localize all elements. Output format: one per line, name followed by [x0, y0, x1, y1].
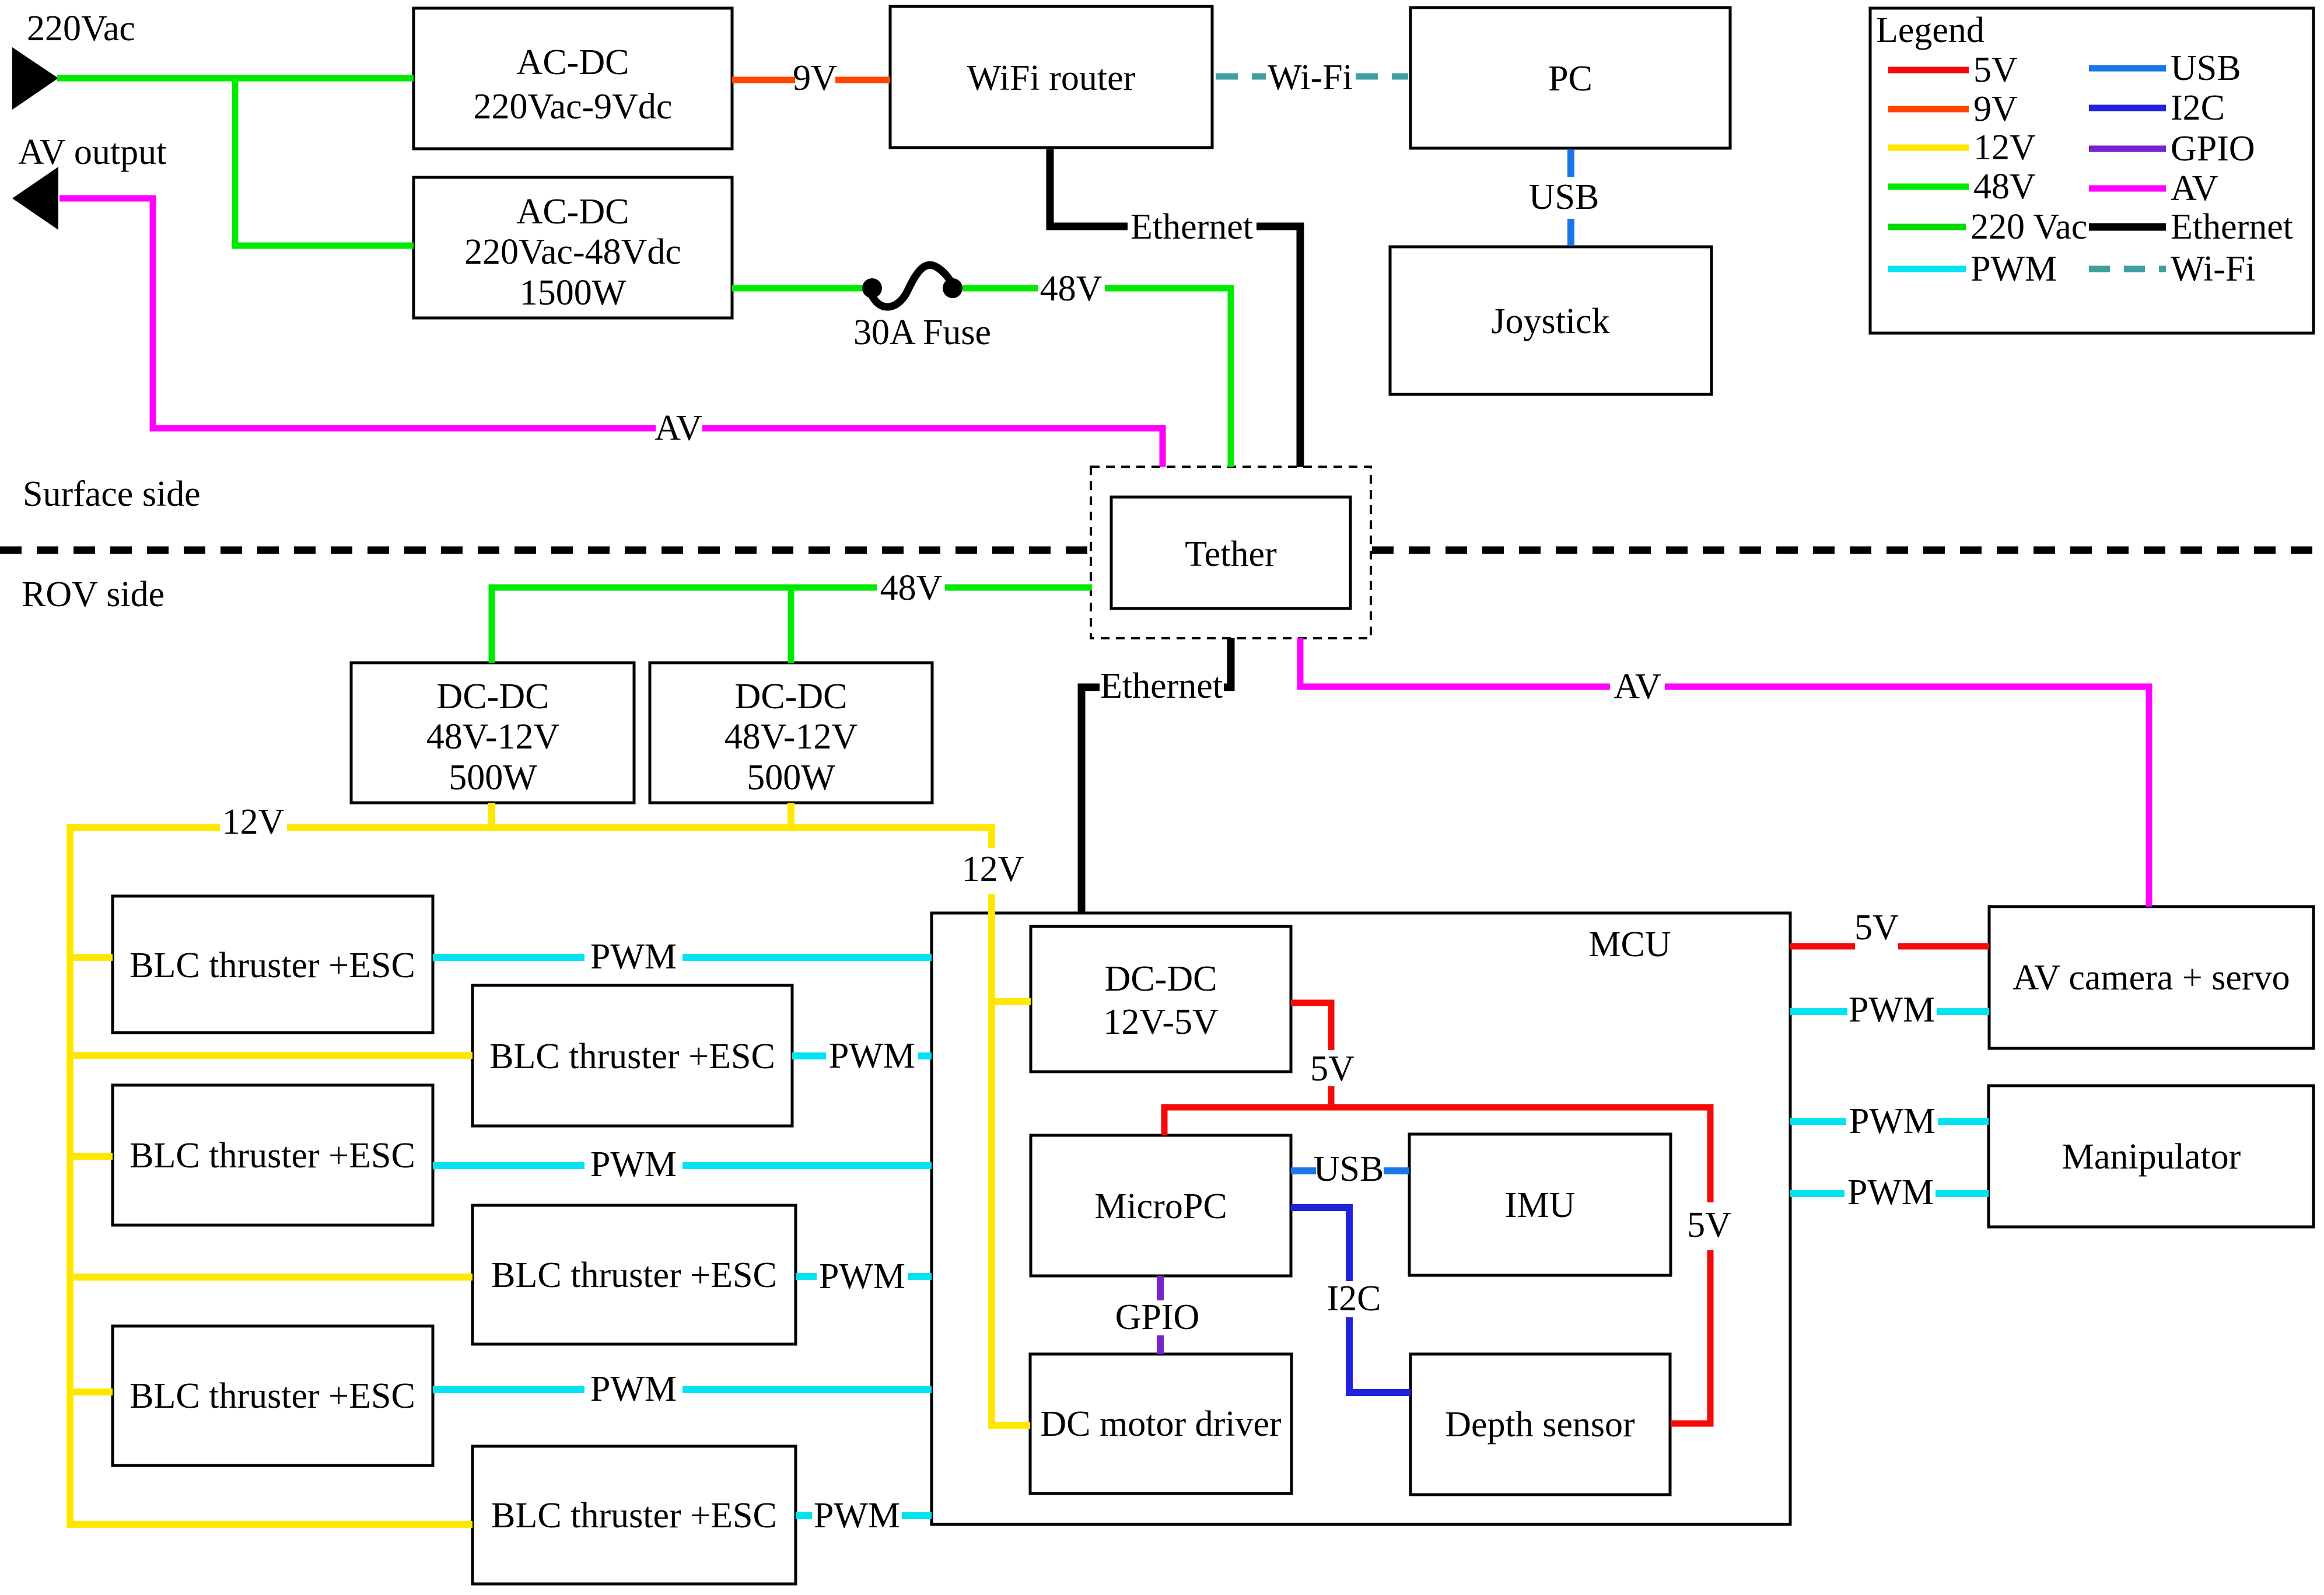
wire PWM cyan BLC6 left	[796, 1512, 812, 1519]
wire AV magenta to tether	[702, 428, 1163, 467]
node legend 48V	[1888, 167, 2036, 207]
node legend 220 Vac	[1888, 207, 2087, 247]
box PC	[1410, 8, 1730, 148]
svg-text:12V: 12V	[222, 802, 285, 842]
box BLC thruster +ESC 6	[473, 1446, 796, 1584]
svg-text:PWM: PWM	[1971, 249, 2057, 289]
svg-text:PWM: PWM	[814, 1496, 900, 1535]
svg-text:48V: 48V	[1040, 269, 1102, 309]
box AV camera + servo	[1989, 907, 2313, 1048]
wire Wi-Fi dashed right	[1356, 74, 1408, 80]
wire AV magenta output	[60, 198, 656, 428]
svg-text:Ethernet: Ethernet	[2171, 207, 2293, 247]
wire Ethernet WiFi router down	[1050, 149, 1128, 226]
box Tether (dashed enclosure)	[1091, 467, 1371, 638]
wire 48V green branch to DC-DC right	[788, 587, 794, 663]
box BLC thruster +ESC 1	[113, 896, 433, 1033]
box BLC thruster +ESC 3	[113, 1085, 433, 1225]
wire PWM cyan BLC5 right	[682, 1386, 932, 1393]
svg-text:AV: AV	[1613, 667, 1661, 706]
wire PWM cyan BLC1 right	[682, 954, 932, 961]
wire PWM cyan BLC3 left	[433, 1162, 584, 1169]
wire 12V yellow left bus	[70, 824, 473, 1524]
svg-text:AV: AV	[2171, 169, 2218, 208]
svg-text:ROV side: ROV side	[22, 575, 164, 614]
box BLC thruster +ESC 2	[473, 985, 792, 1126]
svg-text:PWM: PWM	[1849, 990, 1935, 1030]
box AC-DC 220Vac-9Vdc	[414, 8, 732, 149]
box Depth sensor	[1410, 1354, 1670, 1495]
svg-text:DC-DC: DC-DC	[1105, 959, 1217, 999]
box DC-DC 48V-12V 500W left	[351, 663, 634, 803]
svg-text:BLC thruster +ESC: BLC thruster +ESC	[491, 1496, 777, 1535]
svg-text:BLC thruster +ESC: BLC thruster +ESC	[129, 1376, 415, 1416]
wire 5V red horizontal bus	[1164, 1107, 1710, 1202]
svg-text:500W: 500W	[747, 758, 835, 797]
svg-text:5V: 5V	[1973, 50, 2018, 90]
wire PWM cyan manipulator 2 right	[1936, 1190, 1989, 1197]
svg-text:GPIO: GPIO	[1115, 1297, 1200, 1337]
wire 12V yellow stub BLC5	[70, 1388, 113, 1395]
wire PWM cyan camera right	[1937, 1008, 1989, 1015]
svg-text:Wi-Fi: Wi-Fi	[1268, 58, 1353, 97]
wire PWM cyan manipulator 2 left	[1790, 1190, 1845, 1197]
svg-text:220 Vac: 220 Vac	[1971, 207, 2087, 247]
svg-text:AV: AV	[654, 408, 702, 448]
svg-text:48V: 48V	[1973, 167, 2036, 207]
svg-text:220Vac-9Vdc: 220Vac-9Vdc	[474, 87, 673, 127]
node legend AV	[2089, 169, 2218, 208]
svg-text:GPIO: GPIO	[2171, 129, 2255, 169]
svg-text:Ethernet: Ethernet	[1130, 207, 1253, 247]
svg-text:USB: USB	[1314, 1149, 1384, 1189]
wire Ethernet to MCU	[1081, 687, 1100, 913]
box BLC thruster +ESC 5	[113, 1326, 433, 1465]
wire USB PC upper segment	[1567, 149, 1574, 177]
wire 48V green fuse to label	[963, 285, 1038, 292]
wire PWM cyan BLC1 left	[433, 954, 584, 961]
node legend 9V	[1888, 89, 2018, 129]
svg-text:BLC thruster +ESC: BLC thruster +ESC	[491, 1255, 777, 1295]
wire surface/ROV dashed divider left	[0, 547, 1090, 554]
box WiFi router	[890, 6, 1212, 148]
wire 9V orange right segment	[835, 77, 890, 83]
svg-text:5V: 5V	[1854, 908, 1899, 947]
svg-text:500W: 500W	[449, 758, 537, 797]
svg-text:I2C: I2C	[1327, 1279, 1381, 1318]
wire 5V red MCU to camera left	[1790, 943, 1855, 950]
svg-text:AC-DC: AC-DC	[517, 43, 629, 82]
svg-text:BLC thruster +ESC: BLC thruster +ESC	[129, 946, 415, 985]
wire 48V green ROV to tether	[945, 585, 1092, 591]
wire 12V yellow bus left segment	[70, 824, 220, 831]
wire Ethernet label to tether	[1256, 226, 1300, 467]
svg-text:5V: 5V	[1310, 1049, 1354, 1089]
wire PWM cyan camera left	[1790, 1008, 1847, 1015]
wire PWM cyan manipulator 1 left	[1790, 1118, 1846, 1125]
svg-text:USB: USB	[1529, 177, 1599, 217]
node legend Ethernet	[2089, 207, 2293, 247]
wire 48V green ROV to DC-DC left	[492, 587, 877, 663]
wire Wi-Fi dashed left	[1216, 74, 1266, 80]
node legend I2C	[2089, 88, 2225, 128]
wire 5V red to Depth sensor	[1671, 1250, 1710, 1423]
svg-text:9V: 9V	[793, 58, 837, 98]
wire AV magenta to camera	[1665, 687, 2149, 907]
wire 12V yellow stub to DC-DC 12V-5V	[992, 998, 1031, 1005]
svg-text:48V: 48V	[880, 568, 943, 608]
wire AV magenta tether down	[1300, 638, 1610, 687]
svg-text:AC-DC: AC-DC	[517, 192, 629, 232]
box IMU	[1409, 1134, 1671, 1275]
svg-text:USB: USB	[2171, 48, 2241, 88]
svg-text:PWM: PWM	[1849, 1101, 1936, 1141]
wire USB Joystick lower segment	[1567, 219, 1574, 246]
node AV output arrow	[12, 132, 166, 230]
svg-text:Tether: Tether	[1185, 534, 1277, 574]
wire USB IMU right	[1384, 1167, 1409, 1174]
node legend Wi-Fi	[2089, 249, 2256, 289]
svg-text:Wi-Fi: Wi-Fi	[2171, 249, 2256, 289]
box Joystick	[1390, 247, 1711, 394]
svg-text:I2C: I2C	[2171, 88, 2225, 128]
wire 12V yellow stub BLC4	[70, 1274, 473, 1281]
svg-text:BLC thruster +ESC: BLC thruster +ESC	[489, 1037, 775, 1076]
svg-text:AV camera + servo: AV camera + servo	[2013, 958, 2290, 998]
svg-text:PWM: PWM	[590, 937, 677, 977]
svg-text:48V-12V: 48V-12V	[426, 717, 560, 757]
box MCU	[932, 913, 1790, 1524]
wire USB MicroPC left	[1291, 1167, 1316, 1174]
svg-text:Joystick: Joystick	[1491, 302, 1609, 341]
svg-text:AV output: AV output	[18, 132, 166, 172]
wire PWM cyan BLC2 right	[918, 1052, 932, 1059]
box DC motor driver	[1030, 1354, 1291, 1493]
box MicroPC	[1031, 1135, 1291, 1276]
svg-text:30A Fuse: 30A Fuse	[853, 313, 991, 352]
node legend PWM	[1888, 249, 2057, 289]
box DC-DC 12V-5V	[1031, 926, 1291, 1072]
node 220Vac input arrow	[12, 9, 135, 110]
wire PWM cyan BLC4 right	[908, 1273, 932, 1280]
svg-text:220Vac: 220Vac	[27, 9, 135, 48]
svg-text:PWM: PWM	[590, 1369, 677, 1409]
wire 5V red MCU to camera right	[1898, 943, 1989, 950]
wire PWM cyan BLC5 left	[433, 1386, 584, 1393]
svg-text:Legend: Legend	[1876, 11, 1985, 50]
svg-text:1500W: 1500W	[520, 273, 626, 313]
wire 12V yellow stub BLC3	[70, 1153, 113, 1160]
wire PWM cyan BLC2 left	[792, 1052, 826, 1059]
svg-text:DC motor driver: DC motor driver	[1040, 1404, 1282, 1444]
svg-text:BLC thruster +ESC: BLC thruster +ESC	[129, 1136, 415, 1176]
fuse 30A Fuse	[853, 265, 991, 352]
wire PWM cyan BLC3 right	[682, 1162, 932, 1169]
wire 5V red from DC-DC 12V-5V	[1291, 1003, 1331, 1050]
svg-text:PWM: PWM	[1847, 1173, 1934, 1212]
wire PWM cyan BLC6 right	[902, 1512, 932, 1519]
svg-text:MCU: MCU	[1588, 925, 1671, 964]
svg-text:PWM: PWM	[829, 1036, 915, 1076]
wire GPIO MicroPC down	[1157, 1276, 1164, 1300]
wire I2C to Depth sensor	[1349, 1317, 1410, 1393]
box Manipulator	[1989, 1086, 2313, 1227]
svg-text:12V: 12V	[962, 849, 1024, 889]
wire 9V orange left segment	[732, 77, 795, 83]
wire GPIO to DC motor driver	[1157, 1335, 1164, 1354]
svg-text:DC-DC: DC-DC	[735, 677, 848, 716]
svg-text:220Vac-48Vdc: 220Vac-48Vdc	[464, 232, 681, 272]
node legend 12V	[1888, 128, 2036, 167]
wire 12V yellow stub BLC1	[70, 954, 113, 961]
wire 12V yellow bus right segment	[287, 827, 992, 848]
wire 220Vac green branch down	[235, 78, 414, 246]
svg-text:DC-DC: DC-DC	[437, 677, 549, 716]
svg-text:9V: 9V	[1973, 89, 2018, 129]
node legend GPIO	[2089, 129, 2255, 169]
node legend 5V	[1888, 50, 2018, 90]
svg-text:Manipulator: Manipulator	[2062, 1137, 2241, 1177]
box AC-DC 220Vac-48Vdc 1500W	[414, 177, 732, 318]
svg-text:MicroPC: MicroPC	[1094, 1187, 1227, 1226]
node legend USB	[2089, 48, 2241, 88]
wire 12V yellow DC-DC left down	[488, 803, 495, 827]
box DC-DC 48V-12V 500W right	[650, 663, 932, 803]
svg-text:12V: 12V	[1973, 128, 2036, 167]
box Legend	[1870, 8, 2313, 333]
wire PWM cyan manipulator 1 right	[1938, 1118, 1989, 1125]
svg-text:PWM: PWM	[590, 1145, 677, 1184]
wire 220Vac green input to AC-DC1	[57, 75, 414, 82]
wire surface/ROV dashed divider right	[1372, 547, 2324, 554]
wire 12V yellow DC-DC right down	[787, 803, 794, 827]
wire 12V yellow stub BLC2	[70, 1052, 473, 1059]
svg-text:12V-5V: 12V-5V	[1103, 1002, 1219, 1042]
wire Ethernet tether down	[1224, 638, 1231, 687]
wire PWM cyan BLC4 left	[796, 1273, 817, 1280]
box Tether	[1111, 497, 1350, 608]
svg-text:5V: 5V	[1687, 1205, 1731, 1245]
svg-text:Depth sensor: Depth sensor	[1445, 1405, 1635, 1444]
wire I2C MicroPC down	[1291, 1208, 1349, 1281]
svg-text:WiFi router: WiFi router	[967, 58, 1136, 98]
wire 12V yellow down to DC motor driver	[992, 894, 1030, 1425]
wire 48V green label to tether	[1105, 288, 1231, 467]
wire 5V red bus	[1328, 1086, 1335, 1110]
svg-text:48V-12V: 48V-12V	[724, 717, 858, 757]
svg-text:Surface side: Surface side	[23, 474, 201, 514]
svg-text:IMU: IMU	[1505, 1185, 1576, 1225]
svg-text:Ethernet: Ethernet	[1100, 666, 1223, 706]
box BLC thruster +ESC 4	[473, 1205, 796, 1344]
svg-text:PWM: PWM	[819, 1257, 905, 1296]
svg-text:PC: PC	[1548, 59, 1592, 99]
wire 48V green from AC-DC2 to fuse	[732, 285, 872, 292]
